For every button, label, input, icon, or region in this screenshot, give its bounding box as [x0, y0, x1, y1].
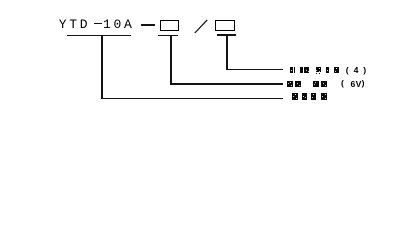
underline under box 1 [158, 35, 178, 36]
model text 10A [103, 20, 135, 29]
leader line 3 (to product code label) [101, 98, 283, 99]
vertical line from box 1 [170, 36, 172, 84]
label 3 glyph cluster (product code) [292, 93, 298, 100]
label 2 glyph cluster (rated voltage) [287, 81, 293, 87]
leader line 1 (to lead-out group label) [226, 69, 283, 70]
leader line 2 (to rated voltage label) [170, 83, 283, 84]
box 1 (rated voltage box) [160, 20, 179, 32]
hyphen in model number [94, 23, 102, 24]
label 1 text (4) [346, 67, 349, 75]
label 1 glyph cluster (lead-out style group) [290, 67, 293, 73]
underline under box 2 [217, 34, 236, 35]
vertical line from box 2 [226, 36, 228, 70]
underline under YTD-10A [67, 35, 131, 37]
box 2 (lead-out group box) [215, 20, 235, 32]
vertical line from YTD-10A underline [101, 36, 103, 99]
label 2 text (6V) [341, 80, 344, 88]
model text YTD-10A [59, 20, 91, 29]
slash separator [194, 19, 209, 35]
dash connector from model text to box 1 [141, 24, 155, 26]
